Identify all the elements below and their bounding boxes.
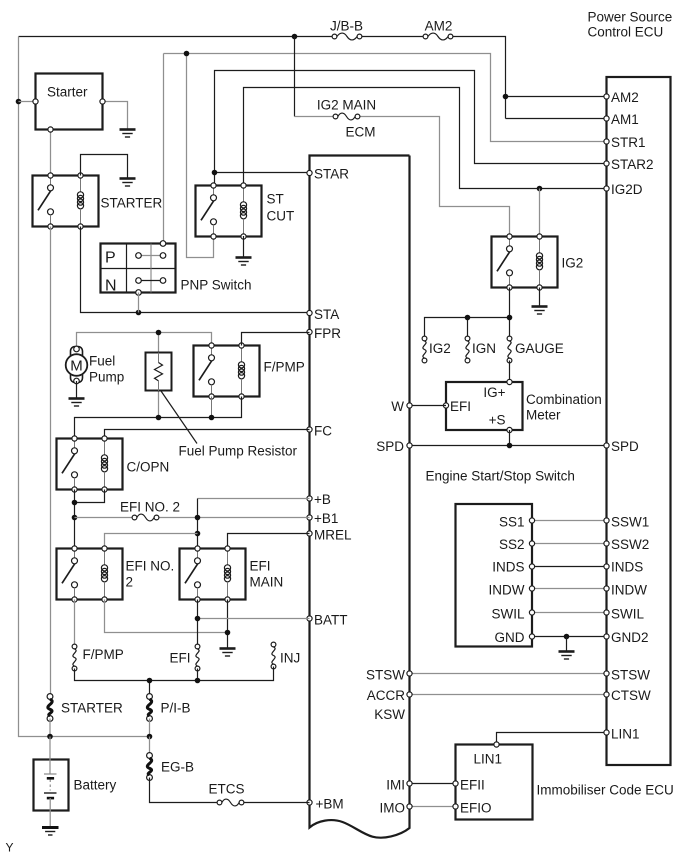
svg-text:M: M [70,358,83,375]
pin INDW [489,583,648,598]
fuse ETCS [208,782,244,806]
svg-text:EFI NO. 2: EFI NO. 2 [120,500,180,515]
svg-text:INDW: INDW [489,583,525,598]
wire IG2D net [244,88,607,192]
svg-text:Starter: Starter [47,85,88,100]
fuse J/B-B [330,19,363,40]
svg-text:IGN: IGN [472,341,496,356]
motor fuel pump [66,346,125,384]
wire FPR pin to F/PMP coil [242,333,310,346]
svg-text:STAR: STAR [314,167,349,182]
svg-text:IG2 MAIN: IG2 MAIN [317,98,376,113]
wire STR1 net (gray) [164,51,607,258]
svg-text:STA: STA [314,307,339,322]
pin AM1 [604,112,639,127]
svg-text:IMI: IMI [386,778,405,793]
wire ACCR/CTSW net (gray) [367,688,651,703]
svg-text:Pump: Pump [89,370,124,385]
switch PNP box [101,241,252,296]
svg-text:LIN1: LIN1 [611,727,640,742]
svg-text:SWIL: SWIL [491,607,524,622]
svg-text:EFI: EFI [450,399,471,414]
svg-text:SWIL: SWIL [611,607,644,622]
svg-text:W: W [391,399,404,414]
pin AM2 [604,90,639,105]
wire IG2 coil to ground [539,288,541,306]
svg-text:EFI NO.: EFI NO. [126,559,175,574]
wire relay coils to ground [105,600,231,648]
ground GND2 [559,652,575,660]
pin W [391,399,446,414]
wire STA net [81,227,310,316]
wire STARTER relay coil top to ground [81,155,128,178]
relay EFI MAIN [180,546,284,602]
svg-text:SS1: SS1 [499,515,525,530]
wire J/B-B main bus [19,37,506,119]
svg-text:PNP Switch: PNP Switch [181,278,252,293]
svg-text:SPD: SPD [611,439,639,454]
wire +B net (gray) [198,498,310,500]
wire SPD net [376,430,606,454]
fuse IG2 [422,336,451,363]
svg-text:SSW2: SSW2 [611,537,649,552]
svg-text:MAIN: MAIN [250,575,284,590]
relay IG2 [492,234,584,290]
svg-text:STSW: STSW [611,668,650,683]
wire STARTER relay contact to battery (gray) [50,227,52,697]
wire EFI NO.2 coil feed (gray) [105,534,198,549]
pin SPD right [604,439,639,454]
svg-text:+S: +S [489,413,506,428]
ground STARTER relay coil [120,179,136,187]
svg-text:SPD: SPD [376,439,404,454]
svg-text:STR1: STR1 [611,135,646,150]
svg-text:AM2: AM2 [425,19,453,34]
svg-text:STSW: STSW [366,668,405,683]
svg-text:Power Source: Power Source [588,10,673,25]
wire GAUGE to meter [509,361,511,383]
pin STR1 [604,135,646,150]
relay ST CUT [196,183,295,239]
svg-text:GAUGE: GAUGE [515,341,564,356]
wire fuel pump to ground [76,381,78,398]
ground battery [42,828,59,836]
callout fuel pump resistor [161,391,298,459]
wire AM1 pin [506,118,607,120]
svg-text:IG+: IG+ [483,385,505,400]
pin SWIL [491,607,644,622]
svg-text:EFI: EFI [250,559,271,574]
wire IG2 MAIN feed (gray) [295,37,540,237]
svg-text:ECM: ECM [346,125,376,140]
pin GND / GND2 [495,630,649,645]
fuse IGN [465,336,496,363]
fuse GAUGE [507,336,564,363]
wire starter right terminal to ground [100,99,128,129]
svg-text:Combination: Combination [526,392,602,407]
fuse F/PMP [72,644,124,671]
fuse AM2 [423,19,453,40]
relay F/PMP [194,343,305,399]
wire STSW net (gray) [366,668,650,683]
fusible link STARTER [47,694,123,722]
wire PNP bottom to STA (gray) [138,293,140,313]
wire C/OPN bottom junction [72,490,105,549]
wire STAR2 / STAR net [212,71,607,186]
svg-text:+B1: +B1 [314,511,338,526]
svg-text:INJ: INJ [280,651,300,666]
svg-text:Y: Y [6,841,14,855]
fusible link EG-B [147,753,194,781]
pin STA [307,307,339,322]
svg-text:FPR: FPR [314,326,341,341]
battery [34,737,117,811]
ground fuel pump [69,399,85,407]
wire LIN1 net [497,727,640,745]
wire EFI NO.2 contact to F/PMP fuse (gray) [74,600,76,647]
wire IMO net (gray) [380,801,459,816]
svg-text:+BM: +BM [316,797,344,812]
wire FC pin to C/OPN coil [105,430,310,439]
wire starter bottom to relay [48,127,53,176]
pin +B [307,492,331,507]
pin SS2 [499,537,649,552]
svg-text:SSW1: SSW1 [611,515,649,530]
svg-text:ACCR: ACCR [367,688,406,703]
wire starter left terminal [19,99,39,104]
node J/B-B to IG2 MAIN junction [292,34,298,40]
wire to EG-B (gray) [149,737,151,756]
wire +B to EFI MAIN contact [195,499,201,549]
svg-text:CTSW: CTSW [611,688,651,703]
immobiliser code ECU box [456,742,674,820]
pin SS1 [499,515,649,530]
pin +B1 [307,511,339,526]
wire battery feed left vertical (gray) [16,37,149,737]
ground starter right [120,130,136,138]
pin IG2D [604,182,643,197]
svg-text:ST: ST [267,192,284,207]
svg-text:MREL: MREL [314,528,352,543]
svg-text:INDS: INDS [611,560,643,575]
wire fuel pump feed (gray) [77,330,212,418]
svg-text:Engine Start/Stop Switch: Engine Start/Stop Switch [426,469,575,484]
svg-text:STAR2: STAR2 [611,157,654,172]
svg-text:SS2: SS2 [499,537,525,552]
svg-text:Fuel Pump Resistor: Fuel Pump Resistor [179,444,298,459]
svg-text:IG2: IG2 [429,341,451,356]
svg-text:INDS: INDS [492,560,524,575]
svg-text:LIN1: LIN1 [474,752,503,767]
power source control ECU box [607,77,671,765]
svg-text:IMO: IMO [380,801,406,816]
svg-text:GND2: GND2 [611,630,649,645]
svg-text:ETCS: ETCS [208,782,244,797]
svg-text:F/PMP: F/PMP [264,360,305,375]
svg-text:EFII: EFII [460,778,485,793]
resistor fuel pump resistor [146,353,172,391]
svg-text:J/B-B: J/B-B [330,19,363,34]
pin STAR [307,167,349,182]
wire EG-B to ETCS [150,778,310,803]
fuse EFI NO. 2 [120,500,180,521]
pin FPR [307,326,341,341]
svg-text:EG-B: EG-B [161,760,194,775]
svg-text:STARTER: STARTER [61,701,123,716]
svg-text:C/OPN: C/OPN [127,460,170,475]
svg-text:CUT: CUT [267,209,295,224]
relay C/OPN [57,436,170,492]
fusible link P/I-B [147,694,191,722]
relay STARTER [33,173,163,229]
wire ST CUT coil to ground [243,236,245,257]
svg-text:INDW: INDW [611,583,647,598]
svg-text:AM2: AM2 [611,90,639,105]
svg-text:Immobiliser Code ECU: Immobiliser Code ECU [537,783,674,798]
wire fuse bottom bus [75,667,274,697]
svg-text:Fuel: Fuel [89,354,115,369]
pin INDS [492,560,643,575]
ground ST CUT [236,258,252,266]
fuse IG2 MAIN [317,98,376,120]
ground IG2 [532,307,548,315]
wire MREL net [228,534,310,549]
wire battery bus (gray) [47,719,152,740]
svg-text:Meter: Meter [526,408,561,423]
wire IMI net [386,778,458,793]
svg-text:GND: GND [495,630,525,645]
svg-text:FC: FC [314,424,332,439]
ground relay coils [220,649,236,657]
wire GND to ground [566,637,568,651]
svg-text:P/I-B: P/I-B [161,701,191,716]
wire +B1 net (gray) [75,517,310,519]
svg-text:Control ECU: Control ECU [588,25,664,40]
svg-text:STARTER: STARTER [101,196,163,211]
pin MREL [307,528,352,543]
svg-text:EFIO: EFIO [460,801,492,816]
wire battery to ground (gray) [49,811,51,827]
svg-text:F/PMP: F/PMP [83,647,124,662]
engine start/stop switch box [456,504,533,647]
svg-text:IG2D: IG2D [611,182,643,197]
label Power Source Control ECU [588,10,673,40]
svg-text:KSW: KSW [374,707,405,722]
combination meter box [443,379,601,432]
wire BATT net (gray) [195,600,310,647]
ECM box [310,156,410,838]
wire AM2 pin [503,94,607,100]
fuse INJ [271,642,300,669]
svg-text:P: P [105,250,116,267]
pin BATT [307,613,348,628]
svg-text:BATT: BATT [314,613,348,628]
svg-text:Battery: Battery [74,778,117,793]
wire ignition fuse bus [425,288,513,339]
pin +BM [307,797,344,812]
svg-text:AM1: AM1 [611,112,639,127]
svg-text:IG2: IG2 [562,256,584,271]
svg-text:N: N [105,278,117,295]
fuse EFI [169,644,199,671]
pin FC [307,424,332,439]
wire F/PMP bottom bus [75,397,242,439]
pin STAR2 [604,157,654,172]
svg-text:+B: +B [314,492,331,507]
starter motor box [36,74,103,130]
svg-text:2: 2 [126,575,134,590]
relay EFI NO. 2 [57,546,175,602]
svg-text:EFI: EFI [169,651,190,666]
